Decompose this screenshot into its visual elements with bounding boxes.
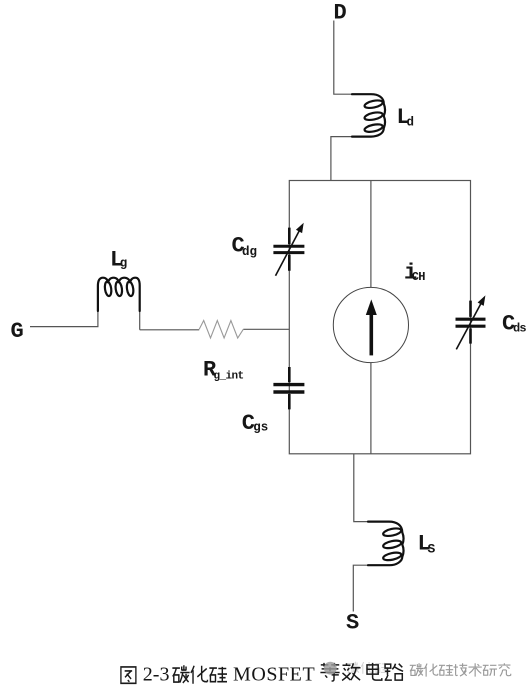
svg-text:g_int: g_int [214,371,244,383]
svg-text:S: S [428,541,436,556]
svg-text:CH: CH [412,270,425,284]
svg-text:d: d [407,116,415,130]
svg-text:S: S [346,611,359,636]
svg-text:D: D [334,1,347,26]
svg-text:gs: gs [253,421,268,435]
svg-text:g: g [120,257,128,271]
svg-text:G: G [11,319,24,344]
svg-text:2-3: 2-3 [143,664,170,686]
svg-text:MOSFET: MOSFET [233,664,315,686]
svg-text:ds: ds [513,322,526,336]
svg-text:dg: dg [242,245,257,259]
